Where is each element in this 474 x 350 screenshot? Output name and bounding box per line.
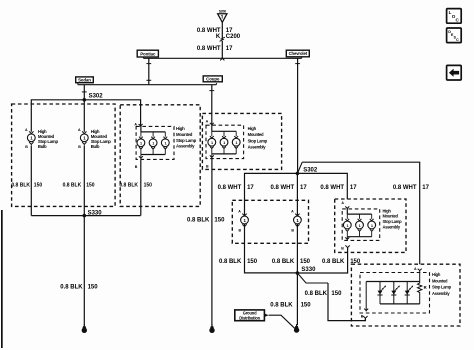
svg-text:150: 150 [331, 291, 342, 297]
svg-text:150: 150 [144, 183, 153, 189]
svg-text:High: High [383, 208, 392, 213]
svg-text:0.8 BLK: 0.8 BLK [63, 183, 82, 189]
svg-text:S302: S302 [89, 93, 104, 99]
svg-text:K: K [216, 34, 221, 40]
svg-text:0.8 BLK: 0.8 BLK [270, 303, 293, 309]
svg-text:17: 17 [350, 185, 357, 191]
svg-text:R: R [424, 285, 427, 290]
svg-text:Pontiac: Pontiac [140, 51, 156, 56]
svg-text:Assembly: Assembly [176, 144, 195, 149]
svg-text:0.8 BLK: 0.8 BLK [272, 259, 295, 265]
svg-text:A: A [206, 120, 209, 124]
svg-text:B: B [238, 228, 241, 232]
svg-text:0.8 WHT: 0.8 WHT [320, 185, 344, 191]
svg-text:Assembly: Assembly [383, 224, 401, 229]
svg-text:Distribution: Distribution [239, 315, 260, 320]
svg-text:1: 1 [140, 142, 142, 146]
svg-text:Stop Lamp: Stop Lamp [248, 138, 268, 143]
svg-text:1: 1 [152, 142, 154, 146]
svg-text:Stop Lamp: Stop Lamp [383, 219, 403, 224]
svg-text:Stop Lamp: Stop Lamp [432, 285, 452, 290]
svg-text:0.8 BLK: 0.8 BLK [305, 291, 328, 297]
svg-text:150: 150 [88, 285, 99, 291]
svg-text:Assembly: Assembly [248, 145, 267, 150]
svg-text:150: 150 [86, 183, 95, 189]
svg-text:0.8 WHT: 0.8 WHT [393, 185, 417, 191]
svg-text:1: 1 [371, 224, 373, 228]
svg-text:17: 17 [247, 185, 254, 191]
svg-text:C200: C200 [226, 34, 241, 40]
svg-text:B: B [341, 246, 344, 250]
svg-text:Stop Lamp: Stop Lamp [176, 138, 197, 143]
svg-text:150: 150 [214, 217, 225, 223]
svg-text:0.8 WHT: 0.8 WHT [197, 46, 221, 52]
svg-text:0.8 WHT: 0.8 WHT [271, 185, 295, 191]
svg-text:1: 1 [223, 141, 225, 145]
svg-text:0.8 BLK: 0.8 BLK [11, 183, 30, 189]
svg-text:Mounted: Mounted [176, 132, 193, 137]
svg-text:A: A [25, 128, 28, 132]
svg-text:1: 1 [211, 141, 213, 145]
svg-text:A: A [341, 201, 344, 205]
svg-text:0.8 BLK: 0.8 BLK [119, 183, 138, 189]
svg-text:Bulb: Bulb [38, 144, 47, 149]
svg-text:Mounted: Mounted [248, 132, 264, 137]
svg-text:0.8 BLK: 0.8 BLK [219, 259, 242, 265]
svg-text:High: High [176, 126, 185, 131]
svg-text:Assembly: Assembly [432, 291, 450, 296]
svg-text:0.8 BLK: 0.8 BLK [187, 217, 210, 223]
svg-text:1: 1 [235, 141, 237, 145]
svg-text:Bulb: Bulb [91, 144, 100, 149]
svg-text:C: C [456, 38, 459, 42]
svg-text:S330: S330 [88, 211, 103, 217]
svg-text:S330: S330 [301, 267, 316, 273]
svg-text:A: A [414, 267, 417, 271]
svg-text:0.8 WHT: 0.8 WHT [218, 185, 242, 191]
svg-text:Mounted: Mounted [432, 278, 448, 283]
svg-text:150: 150 [247, 259, 258, 265]
svg-text:0.8 BLK: 0.8 BLK [322, 259, 345, 265]
svg-text:17: 17 [300, 185, 307, 191]
svg-text:High: High [248, 126, 257, 131]
svg-text:Mounted: Mounted [383, 214, 399, 219]
svg-text:A: A [291, 210, 294, 214]
svg-text:Chevrolet: Chevrolet [289, 51, 308, 56]
svg-text:Coupe: Coupe [206, 77, 220, 82]
svg-text:0.8 BLK: 0.8 BLK [60, 285, 83, 291]
svg-text:Sedan: Sedan [78, 78, 91, 83]
svg-text:1: 1 [359, 224, 361, 228]
svg-text:1: 1 [164, 142, 166, 146]
svg-text:B: B [291, 228, 294, 232]
svg-text:A: A [238, 210, 241, 214]
svg-text:17: 17 [422, 185, 429, 191]
svg-text:A: A [78, 128, 81, 132]
svg-text:High: High [432, 272, 441, 277]
svg-text:150: 150 [300, 259, 311, 265]
svg-text:B: B [78, 145, 81, 149]
svg-text:150: 150 [301, 303, 312, 309]
svg-text:S302: S302 [303, 168, 318, 174]
svg-text:B: B [206, 164, 209, 168]
svg-text:1: 1 [346, 224, 348, 228]
svg-text:B: B [135, 165, 138, 169]
svg-text:B: B [25, 145, 28, 149]
svg-text:S206: S206 [219, 9, 226, 13]
svg-text:150: 150 [34, 183, 43, 189]
svg-text:17: 17 [226, 46, 233, 52]
